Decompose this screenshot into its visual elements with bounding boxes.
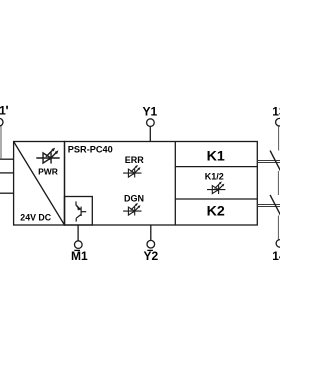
svg-text:1: 1 (0, 103, 6, 117)
svg-text:ERR: ERR (125, 155, 145, 165)
svg-text:K1: K1 (207, 148, 225, 164)
svg-text:K2: K2 (207, 204, 225, 220)
svg-text:Y1: Y1 (143, 105, 158, 119)
svg-text:K1/2: K1/2 (205, 172, 224, 182)
svg-text:Y2: Y2 (144, 249, 159, 263)
svg-text:24V DC: 24V DC (20, 212, 51, 222)
svg-text:M1: M1 (71, 249, 88, 263)
svg-text:13: 13 (272, 105, 280, 119)
svg-text:14: 14 (272, 249, 280, 263)
svg-text:DGN: DGN (124, 194, 144, 204)
svg-text:PSR-PC40: PSR-PC40 (68, 145, 113, 155)
svg-text:PWR: PWR (38, 167, 58, 177)
